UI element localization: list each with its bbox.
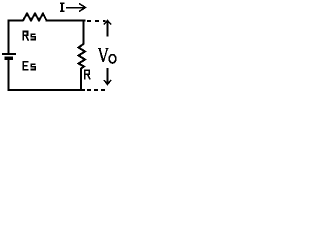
arrow Vo plus (up) [104,21,111,37]
label I [60,3,65,12]
battery Es [2,54,16,60]
dashed line top [87,20,106,22]
dashed line bottom [87,89,107,91]
label Vo [98,49,116,64]
wire top [8,20,24,22]
label Es [23,62,35,70]
resistor Rs [23,14,47,21]
wire top-right segment [46,20,86,22]
resistor R [79,44,86,69]
label R [84,69,90,79]
wire bottom [8,89,86,91]
current arrow I [66,4,86,12]
arrow Vo minus (down) [104,68,111,85]
wire right lower [80,68,82,91]
wire right upper [83,20,85,45]
wire left lower [8,58,10,91]
label Rs [23,31,36,41]
wire left upper [8,20,10,55]
